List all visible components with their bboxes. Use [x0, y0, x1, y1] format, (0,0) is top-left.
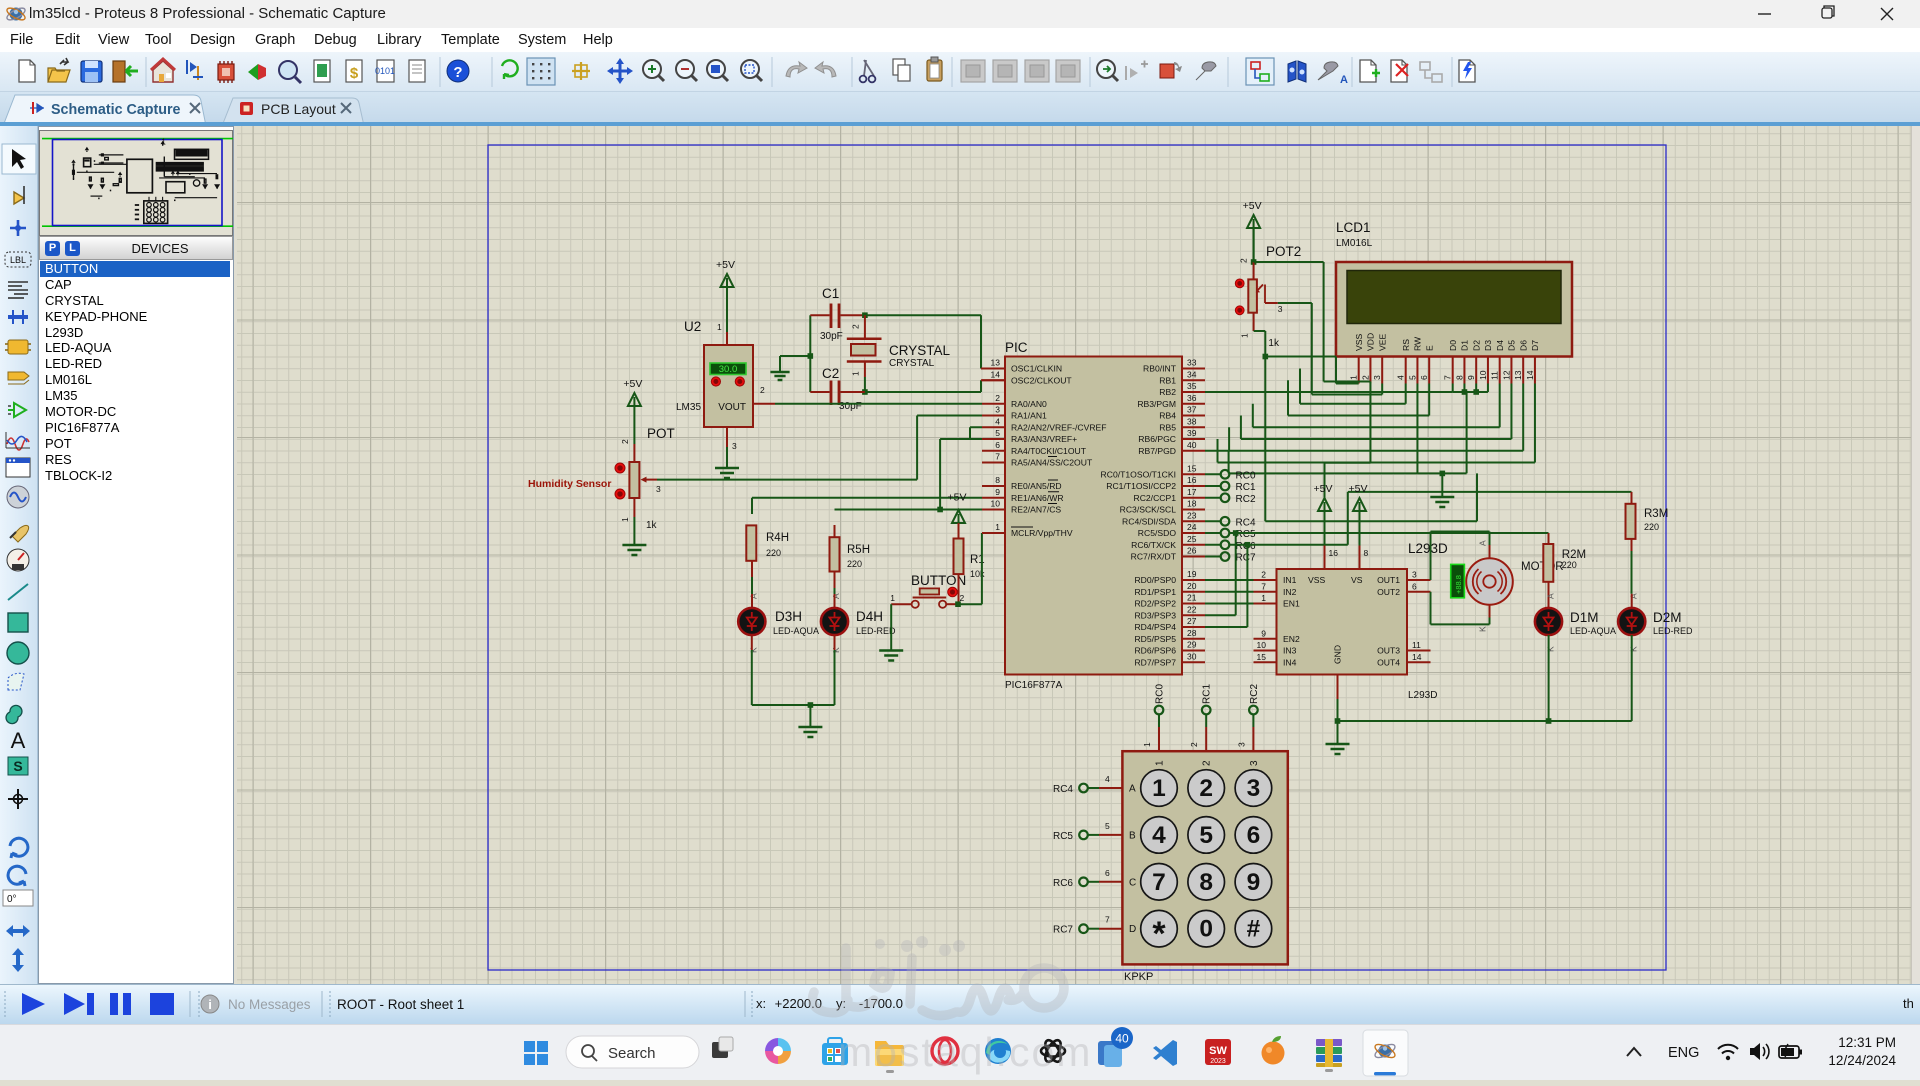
svg-text:RS: RS	[1401, 339, 1411, 351]
svg-text:+5V: +5V	[1243, 200, 1262, 212]
svg-text:5: 5	[1105, 821, 1110, 831]
svg-text:RC1/T1OSI/CCP2: RC1/T1OSI/CCP2	[1106, 481, 1176, 491]
svg-text:LED-RED: LED-RED	[1653, 626, 1693, 636]
svg-text:RC7: RC7	[1053, 925, 1073, 936]
svg-text:PCB Layout: PCB Layout	[261, 101, 336, 117]
svg-text:1: 1	[620, 517, 630, 522]
svg-text:4: 4	[1152, 822, 1166, 849]
svg-text:VS: VS	[1351, 575, 1363, 585]
svg-text:A: A	[1546, 593, 1556, 599]
svg-text:Search: Search	[608, 1045, 656, 1062]
svg-text:2: 2	[760, 385, 765, 395]
svg-text:x:: x:	[756, 996, 766, 1011]
svg-text:1: 1	[717, 322, 722, 332]
svg-text:9: 9	[1247, 869, 1261, 896]
svg-text:?: ?	[453, 64, 462, 81]
svg-text:1: 1	[890, 593, 895, 603]
svg-text:A: A	[11, 728, 26, 753]
svg-text:Schematic Capture: Schematic Capture	[51, 102, 181, 118]
svg-text:18: 18	[1187, 499, 1197, 509]
svg-text:th: th	[1903, 996, 1914, 1011]
svg-text:10: 10	[991, 499, 1001, 509]
svg-text:1: 1	[1261, 593, 1266, 603]
svg-text:LED-AQUA: LED-AQUA	[1570, 626, 1616, 636]
svg-text:9: 9	[1261, 628, 1266, 638]
svg-text:+5V: +5V	[1314, 483, 1333, 495]
svg-text:220: 220	[766, 548, 781, 558]
svg-text:D6: D6	[1518, 340, 1528, 351]
svg-text:39: 39	[1187, 428, 1197, 438]
svg-text:3: 3	[1278, 304, 1283, 314]
svg-text:RC2: RC2	[1249, 684, 1260, 704]
svg-text:RC7: RC7	[1236, 553, 1256, 564]
svg-text:12: 12	[1501, 370, 1511, 380]
svg-text:40: 40	[1115, 1032, 1129, 1046]
svg-text:i: i	[208, 997, 212, 1012]
svg-text:RB0/INT: RB0/INT	[1143, 364, 1177, 374]
svg-text:7: 7	[1261, 581, 1266, 591]
svg-text:RC0: RC0	[1155, 684, 1166, 704]
svg-text:D1M: D1M	[1570, 610, 1599, 625]
svg-text:PIC16F877A: PIC16F877A	[1005, 680, 1063, 691]
svg-text:15: 15	[1257, 652, 1267, 662]
svg-text:13: 13	[991, 358, 1001, 368]
svg-text:RA0/AN0: RA0/AN0	[1011, 399, 1047, 409]
svg-text:D3: D3	[1483, 340, 1493, 351]
svg-text:VDD: VDD	[1366, 333, 1376, 351]
svg-text:220: 220	[1644, 522, 1659, 532]
svg-text:RC7/RX/DT: RC7/RX/DT	[1131, 552, 1177, 562]
svg-text:3: 3	[1247, 775, 1261, 802]
svg-text:24: 24	[1187, 522, 1197, 532]
svg-text:14: 14	[1412, 652, 1422, 662]
svg-text:MOTOR: MOTOR	[1521, 561, 1564, 573]
svg-text:8: 8	[1454, 375, 1464, 380]
svg-text:7: 7	[1105, 915, 1110, 925]
svg-text:KPKP: KPKP	[1124, 971, 1153, 983]
svg-text:5: 5	[1199, 822, 1213, 849]
svg-text:RB1: RB1	[1159, 375, 1176, 385]
svg-text:RC3/SCK/SCL: RC3/SCK/SCL	[1120, 505, 1177, 515]
svg-text:1: 1	[851, 371, 861, 376]
svg-text:D7: D7	[1530, 340, 1540, 351]
svg-text:OSC2/CLKOUT: OSC2/CLKOUT	[1011, 375, 1072, 385]
svg-text:RA2/AN2/VREF-/CVREF: RA2/AN2/VREF-/CVREF	[1011, 422, 1107, 432]
svg-text:D3H: D3H	[775, 609, 802, 624]
svg-text:K: K	[831, 647, 841, 653]
svg-text:2: 2	[1202, 760, 1213, 766]
svg-text:S: S	[13, 758, 22, 774]
svg-text:3: 3	[656, 484, 661, 494]
svg-text:27: 27	[1187, 616, 1197, 626]
svg-text:A: A	[1340, 74, 1348, 86]
svg-text:220: 220	[847, 559, 862, 569]
svg-text:RB5: RB5	[1159, 422, 1176, 432]
svg-text:VOUT: VOUT	[718, 402, 746, 413]
svg-text:POT2: POT2	[1266, 244, 1301, 259]
svg-text:IN2: IN2	[1283, 587, 1297, 597]
svg-text:16: 16	[1187, 475, 1197, 485]
svg-text:RC5: RC5	[1053, 831, 1073, 842]
svg-text:D: D	[1129, 924, 1136, 935]
svg-text:LBL: LBL	[10, 255, 26, 265]
svg-text:+2200.0: +2200.0	[775, 996, 822, 1011]
svg-text:OUT4: OUT4	[1377, 657, 1400, 667]
svg-text:2: 2	[1199, 775, 1213, 802]
svg-text:L293D: L293D	[1408, 690, 1437, 701]
svg-text:3: 3	[732, 441, 737, 451]
svg-text:E: E	[1424, 345, 1434, 351]
svg-text:RD4/PSP4: RD4/PSP4	[1134, 622, 1176, 632]
svg-text:25: 25	[1187, 534, 1197, 544]
svg-text:RA1/AN1: RA1/AN1	[1011, 411, 1047, 421]
svg-text:y:: y:	[836, 996, 846, 1011]
svg-text:LCD1: LCD1	[1336, 220, 1371, 235]
svg-text:2: 2	[620, 439, 630, 444]
svg-text:4: 4	[1105, 774, 1110, 784]
svg-text:EN2: EN2	[1283, 634, 1300, 644]
svg-text:6: 6	[1412, 581, 1417, 591]
svg-text:R5H: R5H	[847, 544, 870, 556]
svg-text:1: 1	[1142, 742, 1152, 747]
svg-text:IN3: IN3	[1283, 646, 1297, 656]
svg-text:RC1: RC1	[1236, 482, 1256, 493]
svg-text:VSS: VSS	[1354, 334, 1364, 351]
svg-text:C: C	[1129, 877, 1136, 888]
svg-text:#: #	[1247, 916, 1261, 943]
svg-text:A: A	[1629, 593, 1639, 599]
svg-text:D4: D4	[1495, 340, 1505, 351]
svg-text:1k: 1k	[646, 520, 658, 531]
svg-text:OUT3: OUT3	[1377, 646, 1400, 656]
svg-text:IN1: IN1	[1283, 575, 1297, 585]
svg-text:PIC: PIC	[1005, 340, 1028, 355]
svg-text:4: 4	[995, 416, 1000, 426]
svg-text:C2: C2	[822, 366, 839, 381]
svg-text:2: 2	[1261, 570, 1266, 580]
svg-text:1: 1	[995, 522, 1000, 532]
svg-text:RD7/PSP7: RD7/PSP7	[1134, 657, 1176, 667]
svg-text:23: 23	[1187, 510, 1197, 520]
svg-text:Humidity Sensor: Humidity Sensor	[528, 478, 611, 490]
svg-text:ROOT - Root sheet 1: ROOT - Root sheet 1	[337, 997, 464, 1012]
svg-text:+5V: +5V	[623, 378, 642, 390]
svg-text:RB6/PGC: RB6/PGC	[1138, 434, 1176, 444]
svg-text:LM016L: LM016L	[1336, 238, 1373, 249]
svg-text:2: 2	[995, 393, 1000, 403]
svg-text:D1: D1	[1460, 340, 1470, 351]
svg-text:9: 9	[995, 487, 1000, 497]
svg-text:IN4: IN4	[1283, 657, 1297, 667]
svg-text:RC4: RC4	[1236, 517, 1256, 528]
svg-text:6: 6	[1419, 375, 1429, 380]
svg-text:6: 6	[1105, 868, 1110, 878]
svg-text:30pF: 30pF	[839, 401, 862, 412]
svg-text:K: K	[1629, 646, 1639, 652]
svg-text:28: 28	[1187, 628, 1197, 638]
svg-text:D2M: D2M	[1653, 610, 1682, 625]
svg-text:8: 8	[995, 475, 1000, 485]
svg-text:11: 11	[1490, 371, 1500, 380]
svg-text:RA5/AN4/SS/C2OUT: RA5/AN4/SS/C2OUT	[1011, 458, 1093, 468]
svg-text:*: *	[1152, 915, 1166, 953]
svg-text:7: 7	[995, 452, 1000, 462]
svg-text:RC4: RC4	[1053, 784, 1073, 795]
svg-text:3: 3	[1236, 742, 1246, 747]
svg-text:11: 11	[1412, 640, 1421, 650]
svg-text:RC0: RC0	[1236, 470, 1256, 481]
svg-text:8: 8	[1199, 869, 1213, 896]
svg-text:CRYSTAL: CRYSTAL	[889, 358, 935, 369]
svg-text:RB2: RB2	[1159, 387, 1176, 397]
svg-text:MCLR/Vpp/THV: MCLR/Vpp/THV	[1011, 528, 1073, 538]
svg-text:1: 1	[1152, 775, 1166, 802]
svg-text:R3M: R3M	[1644, 508, 1668, 520]
svg-text:No Messages: No Messages	[228, 997, 311, 1012]
svg-text:3: 3	[995, 405, 1000, 415]
svg-text:RE2/AN7/CS: RE2/AN7/CS	[1011, 505, 1061, 515]
svg-text:-1700.0: -1700.0	[859, 996, 903, 1011]
svg-text:D4H: D4H	[856, 609, 883, 624]
svg-text:0°: 0°	[7, 894, 17, 905]
svg-text:10: 10	[1478, 370, 1488, 380]
svg-text:26: 26	[1187, 546, 1197, 556]
svg-text:+88.8: +88.8	[1454, 575, 1463, 594]
svg-text:D5: D5	[1507, 340, 1517, 351]
svg-text:VSS: VSS	[1308, 575, 1325, 585]
svg-text:16: 16	[1329, 548, 1339, 558]
svg-text:22: 22	[1187, 604, 1197, 614]
svg-text:40: 40	[1187, 440, 1197, 450]
svg-text:37: 37	[1187, 405, 1197, 415]
svg-text:RW: RW	[1413, 336, 1423, 351]
svg-text:2: 2	[851, 324, 861, 329]
svg-text:EN1: EN1	[1283, 599, 1300, 609]
svg-text:RD6/PSP6: RD6/PSP6	[1134, 646, 1176, 656]
svg-text:7: 7	[1152, 869, 1166, 896]
svg-text:D2: D2	[1471, 340, 1481, 351]
svg-text:RD1/PSP1: RD1/PSP1	[1134, 587, 1176, 597]
svg-text:33: 33	[1187, 358, 1197, 368]
svg-text:7: 7	[1443, 375, 1453, 380]
svg-text:6: 6	[1247, 822, 1261, 849]
svg-text:RA4/T0CKI/C1OUT: RA4/T0CKI/C1OUT	[1011, 446, 1087, 456]
svg-text:35: 35	[1187, 381, 1197, 391]
svg-text:RC1: RC1	[1202, 684, 1213, 704]
svg-text:RB3/PGM: RB3/PGM	[1137, 399, 1176, 409]
svg-text:B: B	[1129, 830, 1136, 841]
svg-text:2: 2	[1239, 258, 1249, 263]
svg-text:+5V: +5V	[1349, 483, 1368, 495]
svg-text:30: 30	[1187, 651, 1197, 661]
svg-text:5: 5	[995, 428, 1000, 438]
svg-text:1k: 1k	[1268, 338, 1280, 349]
svg-text:13: 13	[1513, 370, 1523, 380]
svg-text:29: 29	[1187, 640, 1197, 650]
svg-text:A: A	[749, 593, 759, 599]
svg-text:14: 14	[991, 369, 1001, 379]
svg-text:OUT1: OUT1	[1377, 575, 1400, 585]
svg-text:K: K	[1546, 646, 1556, 652]
svg-text:R4H: R4H	[766, 532, 789, 544]
svg-text:POT: POT	[647, 426, 675, 441]
svg-text:A: A	[1478, 540, 1488, 546]
svg-text:RC6/TX/CK: RC6/TX/CK	[1131, 540, 1176, 550]
svg-text:K: K	[1478, 626, 1488, 632]
svg-text:RE1/AN6/WR: RE1/AN6/WR	[1011, 493, 1064, 503]
svg-text:RC5/SDO: RC5/SDO	[1138, 528, 1177, 538]
svg-text:RC2: RC2	[1236, 494, 1256, 505]
svg-text:19: 19	[1187, 569, 1197, 579]
svg-text:34: 34	[1187, 369, 1197, 379]
svg-text:9: 9	[1466, 375, 1476, 380]
svg-text:3: 3	[1372, 375, 1382, 380]
svg-text:RB7/PGD: RB7/PGD	[1138, 446, 1176, 456]
svg-text:LED-AQUA: LED-AQUA	[773, 626, 819, 636]
svg-text:OSC1/CLKIN: OSC1/CLKIN	[1011, 364, 1062, 374]
svg-text:1: 1	[161, 137, 166, 146]
svg-text:GND: GND	[1333, 645, 1343, 664]
svg-text:220: 220	[1562, 560, 1577, 570]
svg-text:+5V: +5V	[948, 492, 967, 504]
svg-text:LED-RED: LED-RED	[856, 626, 896, 636]
svg-text:$: $	[350, 65, 359, 82]
svg-text:1: 1	[1240, 333, 1250, 338]
svg-text:RD3/PSP3: RD3/PSP3	[1134, 610, 1176, 620]
svg-text:17: 17	[1187, 487, 1197, 497]
svg-text:36: 36	[1187, 393, 1197, 403]
svg-text:U2: U2	[684, 319, 701, 334]
svg-text:SW: SW	[1209, 1045, 1227, 1057]
svg-text:20: 20	[1187, 581, 1197, 591]
svg-text:10: 10	[1257, 640, 1267, 650]
svg-text:3: 3	[1249, 760, 1260, 766]
svg-text:30.0: 30.0	[719, 364, 738, 375]
svg-text:0: 0	[1199, 916, 1213, 943]
svg-text:21: 21	[1187, 593, 1197, 603]
svg-text:C1: C1	[822, 286, 839, 301]
svg-text:RA3/AN3/VREF+: RA3/AN3/VREF+	[1011, 434, 1077, 444]
svg-text:RC4/SDI/SDA: RC4/SDI/SDA	[1122, 516, 1176, 526]
svg-text:RB4: RB4	[1159, 411, 1176, 421]
svg-text:A: A	[1129, 784, 1136, 795]
svg-text:OUT2: OUT2	[1377, 587, 1400, 597]
svg-text:5: 5	[1407, 375, 1417, 380]
svg-text:12:31 PM: 12:31 PM	[1838, 1035, 1896, 1050]
svg-text:L293D: L293D	[1408, 541, 1448, 556]
svg-text:15: 15	[1187, 463, 1197, 473]
svg-text:6: 6	[995, 440, 1000, 450]
svg-text:30pF: 30pF	[820, 331, 843, 342]
svg-text:2: 2	[1360, 375, 1370, 380]
svg-text:ENG: ENG	[1668, 1045, 1699, 1061]
svg-text:3: 3	[1412, 570, 1417, 580]
svg-text:RE0/AN5/RD: RE0/AN5/RD	[1011, 481, 1062, 491]
svg-text:12/24/2024: 12/24/2024	[1828, 1053, 1896, 1068]
svg-text:RD0/PSP0: RD0/PSP0	[1134, 575, 1176, 585]
svg-text:14: 14	[1525, 370, 1535, 380]
svg-text:1: 1	[1155, 760, 1166, 766]
svg-text:1: 1	[1349, 375, 1359, 380]
svg-text:38: 38	[1187, 416, 1197, 426]
svg-text:+5V: +5V	[716, 259, 735, 271]
svg-text:RC6: RC6	[1053, 878, 1073, 889]
svg-text:RD2/PSP2: RD2/PSP2	[1134, 599, 1176, 609]
svg-text:LM35: LM35	[676, 402, 701, 413]
svg-text:CRYSTAL: CRYSTAL	[889, 343, 951, 358]
svg-text:RC2/CCP1: RC2/CCP1	[1133, 493, 1176, 503]
svg-text:RC0/T1OSO/T1CKI: RC0/T1OSO/T1CKI	[1101, 469, 1176, 479]
svg-text:A: A	[831, 593, 841, 599]
svg-text:2023: 2023	[1210, 1058, 1226, 1065]
svg-text:2: 2	[1189, 742, 1199, 747]
svg-text:K: K	[749, 647, 759, 653]
svg-text:RD5/PSP5: RD5/PSP5	[1134, 634, 1176, 644]
svg-text:VEE: VEE	[1377, 334, 1387, 351]
svg-text:D0: D0	[1448, 340, 1458, 351]
svg-text:8: 8	[1364, 548, 1369, 558]
svg-text:4: 4	[1396, 375, 1406, 380]
svg-text:RC5: RC5	[1236, 529, 1256, 540]
svg-text:0101: 0101	[375, 66, 395, 76]
